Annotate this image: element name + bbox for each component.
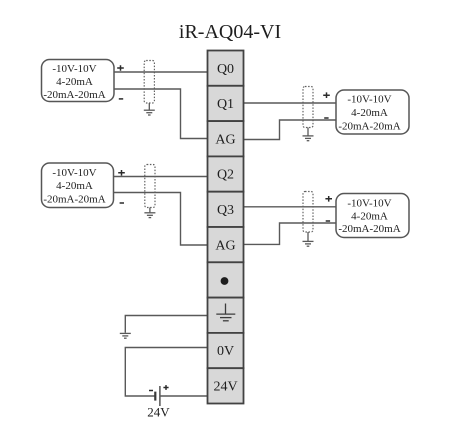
svg-text:-10V-10V: -10V-10V	[347, 198, 391, 210]
svg-text:-20mA-20mA: -20mA-20mA	[43, 89, 105, 101]
wire battery plus to terminal 24V	[160, 395, 208, 397]
label D1 minus	[119, 98, 123, 100]
svg-text:4-20mA: 4-20mA	[351, 107, 388, 119]
terminal Q2	[208, 156, 244, 191]
label D4 minus	[326, 220, 330, 222]
terminal AG (second)	[208, 227, 244, 262]
svg-text:0V: 0V	[217, 344, 234, 359]
wire terminal Q3 to D4+	[244, 206, 337, 208]
shield S2 drain wire	[149, 208, 151, 213]
label D2 plus	[118, 170, 125, 176]
battery BT1 24V plus plate	[159, 386, 161, 406]
label D2 minus	[120, 202, 124, 204]
svg-text:-20mA-20mA: -20mA-20mA	[338, 223, 400, 235]
cable shield S3 (dashed)	[303, 87, 313, 128]
svg-text:Q1: Q1	[217, 97, 234, 112]
svg-text:4-20mA: 4-20mA	[351, 210, 388, 222]
wire earth terminal to ground	[125, 316, 207, 333]
label battery plus	[163, 385, 168, 390]
terminal Q0	[208, 51, 244, 86]
wire D1+ to terminal Q0	[114, 71, 208, 73]
label D3 minus	[324, 117, 328, 119]
cable shield S2 (dashed)	[145, 165, 155, 208]
wire terminal 0V to battery minus	[125, 348, 207, 397]
shield S4 drain wire	[307, 232, 309, 241]
ground (shield S4)	[303, 241, 314, 246]
svg-text:-10V-10V: -10V-10V	[347, 93, 391, 105]
ground (shield S1)	[144, 110, 155, 115]
label D4 plus	[325, 196, 332, 202]
ground (system earth)	[120, 333, 131, 338]
ground (shield S3)	[303, 136, 314, 141]
svg-text:4-20mA: 4-20mA	[56, 180, 93, 192]
svg-text:iR-AQ04-VI: iR-AQ04-VI	[179, 21, 281, 43]
svg-text:Q3: Q3	[217, 203, 234, 218]
label battery minus	[149, 390, 153, 392]
svg-text:24V: 24V	[147, 405, 170, 420]
wire terminal AG to D3-	[244, 120, 337, 140]
cable shield S1 (dashed)	[144, 61, 154, 104]
svg-text:-20mA-20mA: -20mA-20mA	[338, 120, 400, 132]
terminal Q1	[208, 86, 244, 121]
terminal earth (functional ground symbol)	[208, 298, 244, 333]
device D1 signal source box (-10V-10V / 4-20mA / -20mA-20mA)	[42, 60, 115, 102]
wire D2+ to terminal Q2	[113, 176, 208, 178]
device D3 signal source box (-10V-10V / 4-20mA / -20mA-20mA)	[336, 90, 409, 134]
svg-text:AG: AG	[215, 238, 235, 253]
wire D1- to terminal AG	[114, 89, 208, 139]
svg-text:Q0: Q0	[217, 62, 234, 77]
terminal blank with dot	[208, 262, 244, 297]
cable shield S4 (dashed)	[303, 192, 313, 233]
svg-text:-10V-10V: -10V-10V	[52, 167, 96, 179]
svg-text:4-20mA: 4-20mA	[56, 76, 93, 88]
shield S3 drain wire	[307, 128, 309, 136]
svg-text:-10V-10V: -10V-10V	[52, 63, 96, 75]
device D4 signal source box (-10V-10V / 4-20mA / -20mA-20mA)	[336, 194, 409, 238]
device D2 signal source box (-10V-10V / 4-20mA / -20mA-20mA)	[42, 163, 114, 208]
label D1 plus	[117, 65, 124, 71]
terminal AG (first)	[208, 121, 244, 156]
svg-text:-20mA-20mA: -20mA-20mA	[43, 193, 105, 205]
terminal Q3	[208, 192, 244, 227]
label D3 plus	[323, 92, 330, 98]
battery BT1 24V minus plate	[154, 392, 156, 401]
shield S1 drain wire	[148, 103, 150, 110]
ground (shield S2)	[144, 213, 155, 218]
svg-text:Q2: Q2	[217, 168, 234, 183]
wire terminal AG to D4-	[244, 223, 337, 244]
terminal 0V	[208, 333, 244, 368]
svg-text:AG: AG	[215, 132, 235, 147]
wire D2- to terminal AG	[113, 193, 208, 246]
terminal 24V	[208, 368, 244, 403]
wire terminal Q1 to D3+	[244, 102, 337, 104]
svg-text:24V: 24V	[213, 380, 237, 395]
